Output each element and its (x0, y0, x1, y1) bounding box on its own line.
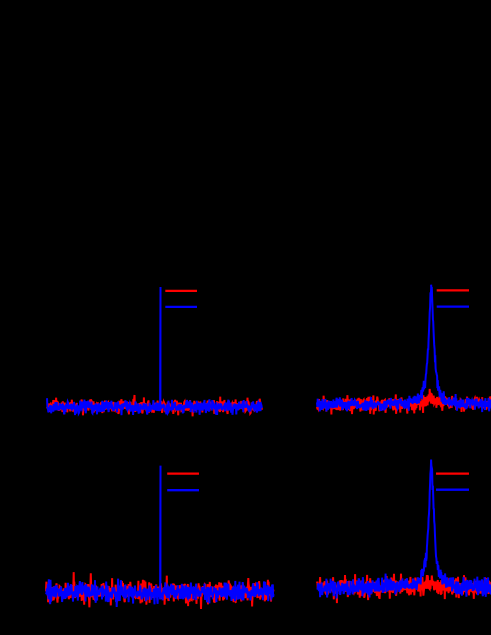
bottom-left plot legend red line (167, 472, 199, 474)
bottom-left plot red noise trace (46, 572, 274, 609)
top-left plot legend blue line (165, 306, 197, 308)
bottom-left plot legend blue line (167, 489, 199, 491)
bottom-left plot blue signal trace with peak (46, 466, 274, 607)
top-right plot legend blue line (437, 305, 469, 307)
top-left plot legend red line (165, 290, 197, 292)
top-left plot blue signal trace with peak (47, 287, 262, 415)
bottom-right plot legend blue line (436, 489, 469, 491)
top-right plot legend red line (437, 289, 469, 291)
bottom-right plot legend red line (436, 472, 469, 474)
bottom-right plot red noise trace (317, 574, 491, 603)
top-left plot red noise trace (47, 395, 262, 416)
bottom-right plot blue signal trace with peak (317, 460, 491, 599)
top-right plot blue signal trace with peak (317, 285, 491, 412)
top-right plot red noise trace (317, 389, 491, 415)
